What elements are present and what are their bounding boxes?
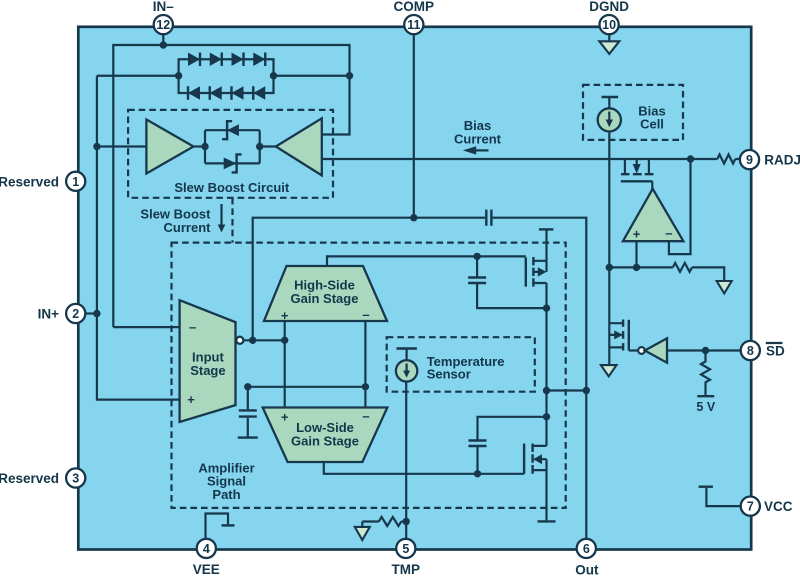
svg-text:8: 8 bbox=[747, 344, 754, 358]
junction IN+ node bbox=[93, 310, 100, 317]
svg-text:TMP: TMP bbox=[392, 562, 421, 577]
diode D6 bbox=[210, 86, 222, 100]
junction SD pulldown bbox=[702, 347, 709, 354]
svg-text:Gain Stage: Gain Stage bbox=[291, 291, 359, 306]
junction input stage out bbox=[249, 337, 256, 344]
capacitor C comp bbox=[486, 210, 491, 226]
junction TMP node bbox=[403, 518, 410, 525]
junction Out line bbox=[583, 387, 590, 394]
svg-text:Current: Current bbox=[454, 131, 502, 146]
schottky diode lower bbox=[224, 158, 237, 170]
pin 9 bbox=[740, 150, 759, 169]
svg-text:Slew Boost Circuit: Slew Boost Circuit bbox=[174, 180, 290, 195]
high-side gain stage bbox=[264, 266, 387, 321]
wire pin12 stub bbox=[162, 34, 164, 46]
svg-text:10: 10 bbox=[602, 18, 616, 32]
arrow slew boost current bbox=[220, 204, 222, 226]
wire A2 output bbox=[260, 145, 276, 147]
wire bias vertical bbox=[608, 132, 610, 366]
svg-text:IN–: IN– bbox=[153, 0, 175, 14]
wire output to gain stages bbox=[243, 339, 285, 341]
svg-text:+: + bbox=[281, 410, 289, 425]
svg-text:Cell: Cell bbox=[640, 117, 664, 132]
svg-text:Current: Current bbox=[164, 220, 212, 235]
ground opamp bbox=[717, 281, 732, 293]
wire sd gate to inverter bbox=[629, 349, 638, 351]
junction pin12 rail bbox=[160, 41, 167, 48]
svg-text:IN+: IN+ bbox=[38, 307, 60, 322]
wire fb line bbox=[248, 386, 366, 388]
capacitor miller bottom bbox=[478, 417, 547, 474]
wire TMP resistor branch bbox=[362, 520, 406, 522]
svg-text:+: + bbox=[187, 392, 195, 407]
junction slew input tap bbox=[93, 143, 100, 150]
resistor R bias bbox=[673, 263, 692, 272]
junction feedback tap bbox=[346, 72, 353, 79]
svg-text:Out: Out bbox=[575, 562, 599, 577]
pin 3 bbox=[66, 468, 85, 487]
svg-text:2: 2 bbox=[72, 307, 79, 321]
pin 7 bbox=[741, 497, 760, 516]
wire Q2 source to VEE rail bbox=[545, 470, 547, 520]
ground tmp bbox=[361, 522, 363, 527]
svg-text:6: 6 bbox=[583, 542, 590, 556]
diode D2 bbox=[210, 53, 222, 67]
svg-text:+: + bbox=[633, 227, 641, 242]
junction A2 output node bbox=[256, 143, 263, 150]
capacitor miller top bbox=[477, 256, 546, 308]
wire SD input bbox=[667, 349, 742, 351]
bias cell dashed box bbox=[583, 85, 683, 140]
svg-text:Stage: Stage bbox=[190, 363, 225, 378]
svg-text:High-Side: High-Side bbox=[294, 277, 355, 292]
wire Q1 source to VCC rail bbox=[545, 231, 547, 261]
svg-text:DGND: DGND bbox=[589, 0, 629, 14]
junction diode net right bbox=[270, 72, 277, 79]
wire Q1 drain down bbox=[545, 283, 547, 446]
junction gain - node bbox=[362, 383, 369, 390]
DGND ground bbox=[608, 30, 610, 41]
input stage U1 bbox=[180, 300, 236, 422]
pin 2 bbox=[66, 304, 85, 323]
current source bias cell bbox=[602, 96, 619, 98]
wire op-amp + input bbox=[635, 241, 637, 267]
transistor Q4 shutdown bbox=[609, 323, 623, 347]
wire COMP vertical bbox=[413, 33, 415, 218]
wire IN+ vertical to noninverting input bbox=[97, 76, 180, 400]
svg-text:Sensor: Sensor bbox=[427, 366, 471, 381]
resistor RADJ bbox=[717, 155, 735, 164]
svg-text:–: – bbox=[362, 307, 369, 322]
svg-text:+: + bbox=[281, 308, 289, 323]
svg-text:5 V: 5 V bbox=[696, 400, 715, 414]
svg-text:3: 3 bbox=[72, 472, 79, 486]
wire pin2 stub bbox=[84, 312, 97, 314]
wire high-side output to pmos gate bbox=[327, 256, 526, 266]
pin 1 bbox=[66, 172, 85, 191]
temperature sensor dashed box bbox=[387, 337, 535, 392]
wire diode-net left feed bbox=[97, 75, 179, 77]
junction bias node bbox=[606, 264, 613, 271]
svg-text:9: 9 bbox=[746, 153, 753, 167]
wire low-side output to Q2 gate bbox=[324, 462, 524, 474]
junction A1 output node bbox=[201, 143, 208, 150]
schottky diode upper bbox=[227, 124, 239, 136]
svg-text:7: 7 bbox=[747, 500, 754, 514]
wire diode network frame bbox=[179, 59, 274, 93]
pin 8 bbox=[741, 341, 760, 360]
svg-text:–: – bbox=[189, 320, 196, 335]
transistor Q1 output pmos bbox=[525, 257, 527, 286]
amplifier signal path dashed box bbox=[172, 243, 566, 508]
wire slew amp input bbox=[97, 145, 146, 147]
diode D1 bbox=[188, 53, 200, 67]
svg-text:RADJ: RADJ bbox=[764, 153, 800, 168]
junction Q2 gate cap bbox=[474, 470, 481, 477]
resistor R tmp bbox=[379, 517, 402, 526]
pin 4 bbox=[197, 539, 216, 558]
svg-text:11: 11 bbox=[407, 18, 420, 32]
svg-text:SD: SD bbox=[766, 344, 785, 359]
junction gain + node bbox=[281, 337, 288, 344]
transistor Q3 radj mirror bbox=[625, 159, 649, 173]
inverter U3 bbox=[638, 347, 645, 354]
wire gain + vertical bbox=[284, 321, 286, 408]
dashed slew current stub bbox=[231, 198, 233, 243]
junction diode net left bbox=[175, 72, 182, 79]
junction Q2 drain cap bbox=[543, 413, 550, 420]
slew boost amp A1 bbox=[146, 120, 193, 174]
svg-text:–: – bbox=[665, 226, 672, 241]
svg-text:Reserved: Reserved bbox=[0, 174, 59, 189]
chip body bbox=[78, 27, 751, 550]
svg-text:5: 5 bbox=[402, 542, 409, 556]
arrow bias current bbox=[474, 149, 489, 151]
junction cap branch bbox=[244, 383, 251, 390]
node input stage output bubble bbox=[236, 337, 243, 344]
pin 10 bbox=[600, 15, 619, 34]
svg-text:–: – bbox=[362, 409, 369, 424]
svg-text:Gain Stage: Gain Stage bbox=[291, 434, 359, 449]
VEE rail symbol bbox=[206, 514, 229, 541]
svg-text:1: 1 bbox=[72, 175, 79, 189]
wire IN- top rail to inverting input bbox=[113, 45, 349, 327]
VCC rail symbol bbox=[706, 488, 742, 506]
svg-text:Path: Path bbox=[212, 487, 240, 502]
ground shutdown bbox=[601, 365, 617, 376]
wire right node to feedback bbox=[274, 75, 350, 77]
wire out link bbox=[547, 389, 587, 391]
svg-text:VCC: VCC bbox=[764, 499, 793, 514]
op-amp U2 bbox=[623, 189, 684, 241]
svg-text:4: 4 bbox=[203, 542, 210, 556]
low-side gain stage bbox=[263, 408, 388, 463]
wire bias node line bbox=[609, 267, 724, 281]
wire op-amp - feedback bbox=[669, 159, 691, 254]
slew boost amp A2 bbox=[276, 118, 322, 175]
current source temp sensor bbox=[396, 347, 417, 349]
resistor R sd 5V bbox=[701, 351, 710, 396]
transistor Q2 output nmos bbox=[523, 444, 525, 474]
pin 11 bbox=[404, 15, 423, 34]
diode D4 bbox=[253, 53, 265, 67]
junction output rail bbox=[543, 387, 550, 394]
svg-text:VEE: VEE bbox=[193, 562, 220, 577]
svg-text:COMP: COMP bbox=[394, 0, 435, 14]
diode D5 bbox=[188, 86, 200, 100]
capacitor below input stage bbox=[247, 387, 249, 437]
wire gain - vertical bbox=[364, 321, 366, 408]
pin 12 bbox=[154, 15, 173, 34]
pin 6 bbox=[577, 539, 596, 558]
svg-text:12: 12 bbox=[156, 18, 170, 32]
junction Q1 drain cap bbox=[543, 304, 550, 311]
diode D3 bbox=[232, 53, 244, 67]
slew boost dashed box bbox=[128, 110, 333, 198]
wire A1 output bbox=[194, 145, 206, 147]
diode D8 bbox=[253, 86, 265, 100]
wire comp line with cap bbox=[253, 218, 587, 540]
diode D7 bbox=[232, 86, 244, 100]
wire antiparallel box bbox=[205, 130, 260, 163]
wire temp sensor to TMP pin bbox=[405, 382, 407, 540]
wire bias line to RADJ bbox=[322, 158, 742, 160]
pin 5 bbox=[396, 539, 415, 558]
junction COMP node bbox=[410, 214, 417, 221]
junction op-amp + node bbox=[633, 264, 640, 271]
wire inverting input bbox=[113, 326, 179, 328]
svg-text:Reserved: Reserved bbox=[0, 471, 59, 486]
junction Q1 gate cap bbox=[473, 253, 480, 260]
junction RADJ feedback bbox=[687, 155, 694, 162]
